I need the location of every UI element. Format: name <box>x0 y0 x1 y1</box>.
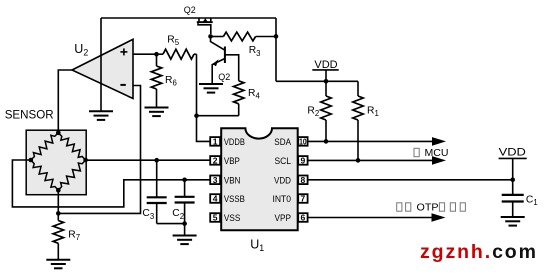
node junction bridge bottom / R7 / op-amp minus <box>56 211 61 216</box>
svg-text:R3: R3 <box>249 45 261 58</box>
svg-text:6: 6 <box>301 213 306 223</box>
wire horizontal rail feeding R2 and R1 tops <box>276 80 358 82</box>
svg-text:10: 10 <box>299 137 307 147</box>
label to MCU <box>414 147 449 159</box>
pin 10 SDA <box>274 137 307 148</box>
svg-text:R7: R7 <box>68 230 80 243</box>
resistor R2 <box>321 81 331 141</box>
ground below C2/C3 <box>173 236 197 245</box>
svg-text:5: 5 <box>213 213 218 223</box>
pin 5 VSS <box>210 213 240 224</box>
node junction C3 tap on VBP wire <box>154 158 159 163</box>
node junction R2 on SDA <box>324 139 329 144</box>
sensor bridge box <box>26 130 86 195</box>
node junction + input / R5 / R6 <box>154 52 159 57</box>
svg-text:3: 3 <box>213 175 218 185</box>
ground below C1 <box>501 217 525 226</box>
svg-text:8: 8 <box>301 175 306 185</box>
resistor R4 <box>234 60 244 116</box>
bridge resistor bottom-right arm <box>58 160 85 190</box>
svg-text:R4: R4 <box>248 88 260 101</box>
svg-text:Q2: Q2 <box>184 5 196 15</box>
wire right vertical from top rail down to R1/R2 rail <box>275 18 277 81</box>
wire bridge right node to pin 2 VBP <box>86 159 211 161</box>
svg-text:MCU: MCU <box>425 147 449 159</box>
svg-text:C3: C3 <box>142 208 154 221</box>
ground below R7 <box>46 260 70 269</box>
ground below R6 <box>145 108 169 117</box>
ground below Q2 emitter <box>199 84 223 93</box>
node bridge top <box>56 131 61 136</box>
svg-text:zgznh.com: zgznh.com <box>420 241 538 263</box>
IC U1 body <box>221 128 298 230</box>
resistor R5 <box>157 49 197 59</box>
bridge resistor bottom-left arm <box>31 160 59 190</box>
svg-text:R5: R5 <box>167 34 179 47</box>
svg-text:2: 2 <box>213 156 218 166</box>
node bridge left <box>29 158 34 163</box>
svg-text:VSS: VSS <box>224 213 241 224</box>
bridge resistor top-right arm <box>58 133 85 160</box>
svg-text:1: 1 <box>213 137 218 147</box>
wire VDDB node to pin 1 <box>197 116 211 142</box>
ground below op-amp <box>89 111 113 120</box>
node junction VDDB net <box>194 113 199 118</box>
capacitor C3 <box>147 160 167 223</box>
wire down to ground <box>184 224 186 236</box>
pin 4 VSSB <box>210 194 245 205</box>
pin 2 VBP <box>210 156 240 167</box>
wire SCL to MCU <box>308 159 433 161</box>
svg-text:SDA: SDA <box>274 137 291 148</box>
svg-text:7: 7 <box>301 194 306 204</box>
pin 6 VPP <box>275 213 308 224</box>
transistor Q2 (MOSFET) <box>197 18 213 34</box>
op-amp U2 <box>72 39 133 98</box>
pin 3 VBN <box>210 175 240 186</box>
resistor R6 <box>151 54 161 107</box>
wire top rail from op-amp supply to right corner <box>101 17 276 19</box>
pin 7 INT0 <box>273 194 308 205</box>
svg-text:R1: R1 <box>367 106 379 119</box>
svg-text:Q2: Q2 <box>218 72 230 82</box>
node junction C2 tap on VBN wire <box>182 178 187 183</box>
wire C3 bottom to C2 bottom <box>157 223 185 225</box>
wire op-amp - input to bridge bottom node <box>58 86 140 214</box>
capacitor C1 <box>502 180 524 217</box>
resistor R3 <box>211 32 277 41</box>
pin 8 VDD <box>274 175 308 186</box>
svg-text:VBN: VBN <box>224 175 241 186</box>
svg-text:R2: R2 <box>307 106 319 119</box>
svg-text:SENSOR: SENSOR <box>5 108 54 121</box>
wire bridge bottom node down to junction <box>57 190 59 213</box>
wire SDA to MCU <box>308 140 433 142</box>
wire bridge left node to pin 3 VBN <box>12 160 210 207</box>
svg-text:SCL: SCL <box>275 156 292 167</box>
node junction below Q2 drain <box>208 34 213 39</box>
wire op-amp supply vertical through body <box>100 18 102 111</box>
svg-text:U1: U1 <box>250 238 264 254</box>
svg-text:INT0: INT0 <box>273 194 292 205</box>
transistor Q2 (BJT) <box>211 37 239 84</box>
node junction C1/VDD <box>510 178 515 183</box>
svg-text:OTP: OTP <box>417 201 439 213</box>
node junction C2/C3 ground <box>182 221 187 226</box>
net VDD (over R2/R1) <box>312 59 338 81</box>
svg-text:VDD: VDD <box>499 147 526 159</box>
node junction R1 on SCL <box>356 158 361 163</box>
svg-text:U2: U2 <box>74 42 88 58</box>
wire op-amp + input to R5/R6 node <box>133 53 157 55</box>
resistor R7 <box>53 213 63 259</box>
resistor R1 <box>353 81 363 160</box>
node bridge bottom <box>56 188 61 193</box>
node junction R3 right on vertical rail <box>274 34 279 39</box>
wire R4 bottom to VDDB node <box>197 115 239 117</box>
wire VPP to OTP programmer <box>308 217 432 219</box>
wire op-amp output to bridge top node <box>58 70 72 133</box>
svg-text:4: 4 <box>213 194 218 204</box>
svg-text:C1: C1 <box>526 194 538 207</box>
svg-text:VPP: VPP <box>275 213 292 224</box>
net VDD (right, over C1) <box>499 147 527 180</box>
svg-text:VBP: VBP <box>224 156 240 167</box>
node bridge right <box>83 158 88 163</box>
svg-text:9: 9 <box>301 156 306 166</box>
capacitor C2 <box>175 180 195 224</box>
label to OTP programmer <box>397 201 466 213</box>
svg-text:VDDB: VDDB <box>224 137 245 148</box>
bridge resistor top-left arm <box>31 133 59 160</box>
pin 1 VDDB <box>210 137 245 148</box>
svg-text:C2: C2 <box>172 208 184 221</box>
wire VDD pin 8 to C1 node <box>308 179 513 181</box>
svg-text:R6: R6 <box>165 75 177 88</box>
wire R5 right down to VDDB node <box>196 54 198 115</box>
node junction VDD rail <box>324 79 329 84</box>
svg-text:VSSB: VSSB <box>224 194 245 205</box>
pin 9 SCL <box>275 156 308 167</box>
svg-text:VDD: VDD <box>274 175 291 186</box>
